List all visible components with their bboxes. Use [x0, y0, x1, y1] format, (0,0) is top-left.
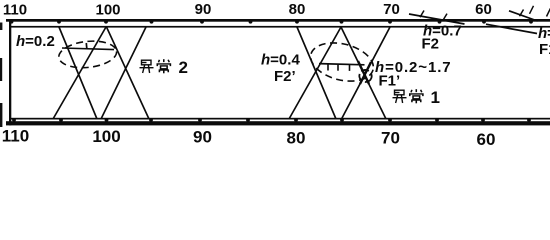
svg-text:90: 90 — [193, 128, 212, 146]
bottom profile line — [6, 121, 550, 125]
fault trace inside ellipse 1 — [62, 48, 114, 50]
ray line D — [101, 27, 146, 119]
fault ticks ellipse 2 — [328, 65, 350, 71]
svg-text:80: 80 — [289, 1, 306, 18]
left edge smudge 3 — [0, 103, 2, 127]
F4 hachure ticks — [520, 6, 550, 17]
ray line C — [107, 27, 150, 119]
svg-text:70: 70 — [381, 129, 400, 147]
ray line A — [59, 27, 97, 119]
left edge smudge 1 — [0, 23, 2, 31]
svg-text:F2: F2 — [422, 36, 440, 53]
svg-text:80: 80 — [287, 129, 306, 147]
intersection ray group 1 — [53, 27, 149, 119]
svg-text:100: 100 — [92, 127, 120, 146]
svg-text:F2’: F2’ — [274, 68, 296, 85]
ray line E — [297, 27, 336, 119]
ray line F — [289, 27, 341, 119]
label 异常 2 — [140, 58, 188, 77]
svg-text:h=0.2: h=0.2 — [16, 33, 55, 50]
svg-text:h=0.4: h=0.4 — [261, 51, 300, 68]
svg-text:1: 1 — [431, 88, 440, 107]
bold overlay at ray crossing — [358, 61, 371, 84]
top scale numbers — [3, 1, 492, 18]
anomaly ellipse 1 (dashed) — [57, 38, 117, 70]
station dots top — [10, 20, 533, 24]
ray line H — [342, 27, 391, 119]
label 异常 1 — [393, 88, 440, 107]
svg-text:90: 90 — [195, 1, 212, 18]
left border — [9, 19, 11, 125]
svg-text:70: 70 — [383, 1, 400, 18]
svg-text:60: 60 — [475, 1, 492, 18]
fault F2 line (hachured, crossing top line) — [409, 14, 465, 24]
svg-text:h=0.: h=0. — [538, 25, 550, 42]
station dots bottom — [12, 118, 531, 122]
svg-text:F1’: F1’ — [379, 73, 401, 90]
top inner line — [9, 26, 550, 28]
ray line G — [341, 27, 386, 119]
top profile line — [6, 19, 550, 22]
svg-text:F1: F1 — [539, 41, 550, 58]
svg-text:100: 100 — [95, 2, 120, 19]
anomaly ellipse 2 (dashed) — [307, 37, 378, 87]
fault F4 leader below line — [486, 24, 537, 33]
ray line B — [53, 27, 106, 119]
svg-text:110: 110 — [3, 2, 27, 19]
bottom inner line — [9, 118, 550, 120]
svg-text:110: 110 — [2, 127, 29, 146]
svg-text:2: 2 — [179, 58, 188, 77]
left edge smudge 2 — [0, 58, 2, 81]
fault tick ellipse 1 — [85, 43, 88, 49]
F2 hachure ticks — [420, 11, 447, 21]
fault F4 line above (hachured) — [509, 11, 538, 21]
svg-text:60: 60 — [477, 130, 496, 146]
fault trace inside ellipse 2 — [319, 64, 365, 65]
bottom scale numbers — [2, 127, 496, 150]
intersection ray group 2 — [289, 27, 390, 119]
small loop at intersection of rays G,H — [358, 68, 374, 84]
